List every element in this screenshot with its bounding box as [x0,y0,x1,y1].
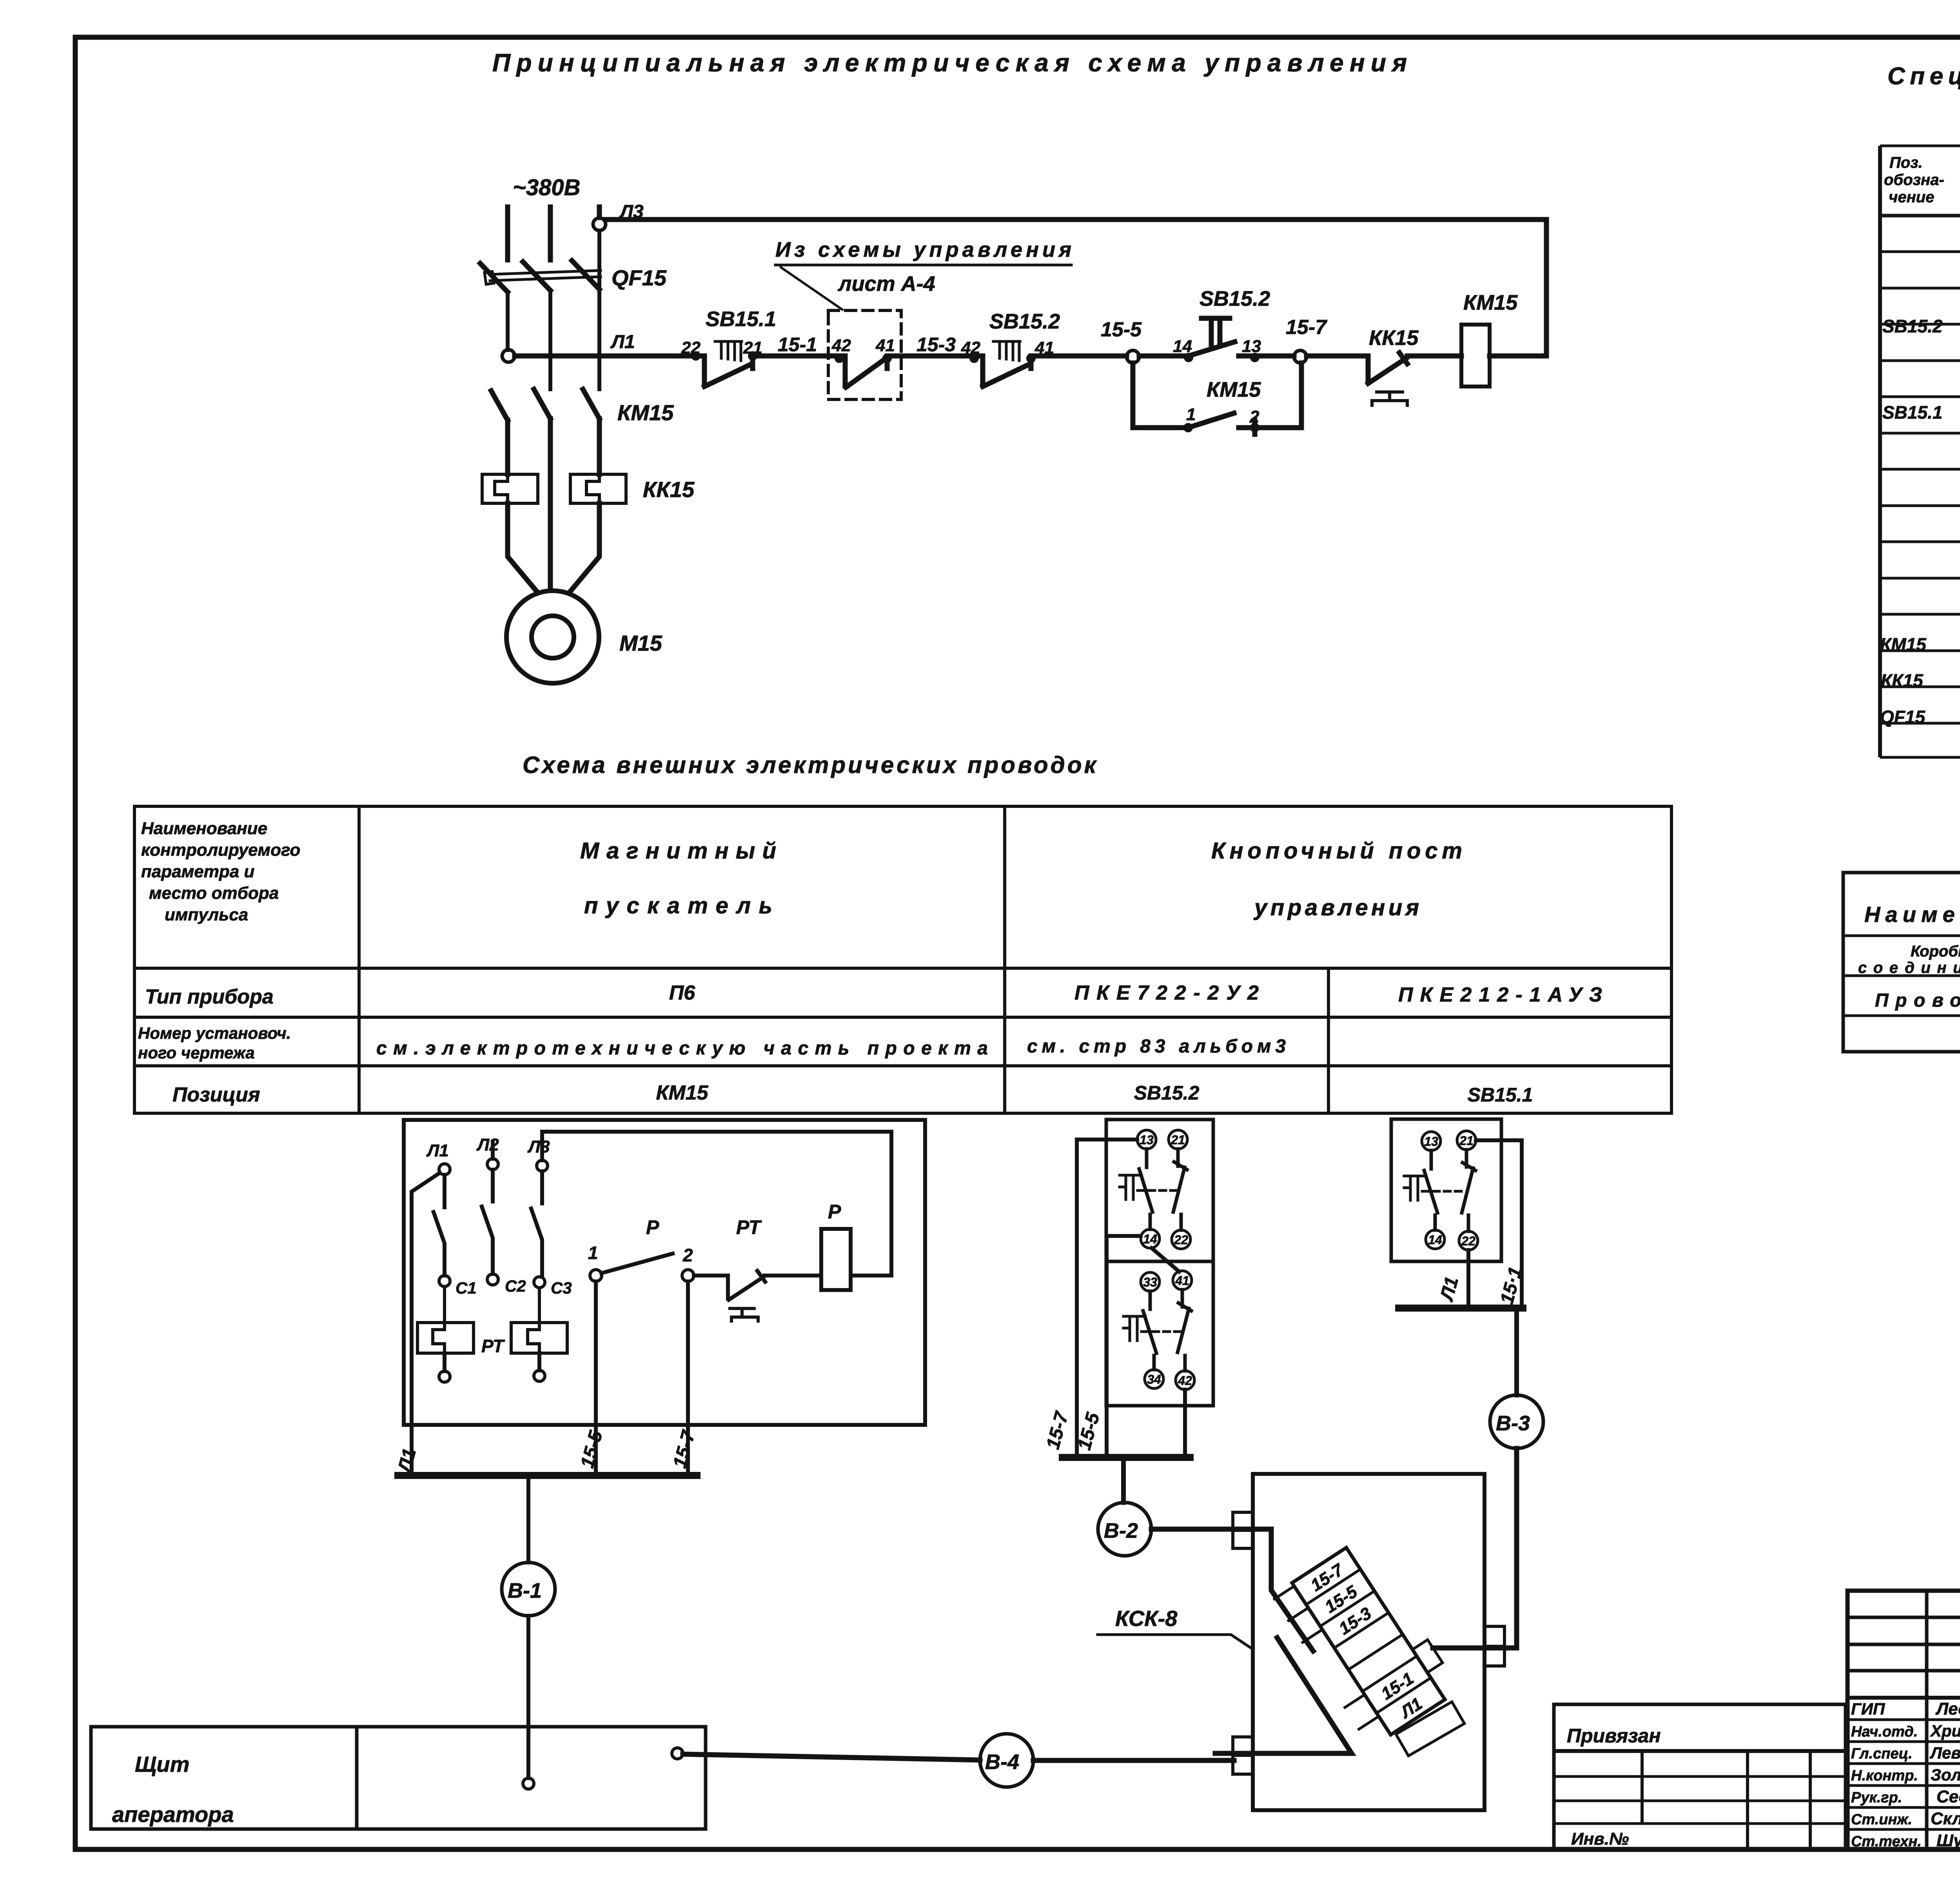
wires 15-5 / 15-7 down to bus [596,1281,688,1475]
svg-text:КМ15: КМ15 [617,400,674,425]
bus under SB15.1 [1399,1305,1523,1312]
svg-text:Щит: Щит [135,1752,189,1776]
svg-text:ПКЕ722-2У2: ПКЕ722-2У2 [1074,982,1259,1004]
svg-text:2: 2 [1249,407,1259,426]
svg-text:42: 42 [831,336,851,355]
wire to node 15-5 [1031,354,1127,359]
svg-text:Ст.техн.: Ст.техн. [1851,1833,1922,1850]
drop to B-1 [526,1479,530,1562]
svg-text:Л2: Л2 [476,1135,499,1154]
node 15-7 [1294,350,1307,363]
wire B-2 into box [1151,1529,1313,1651]
svg-text:Леонов: Леонов [1935,1699,1960,1718]
svg-text:Л1: Л1 [426,1141,449,1160]
svg-text:SB15.1: SB15.1 [706,307,776,331]
svg-text:параметра и: параметра и [141,862,254,881]
main title block [1847,1591,1960,1849]
svg-text:Л3: Л3 [527,1137,550,1156]
svg-text:П6: П6 [669,982,695,1004]
svg-text:Магнитный: Магнитный [580,838,776,864]
svg-text:13: 13 [1424,1134,1438,1149]
power circuit: ~380V supply [480,175,1546,683]
terminals upper block [1137,1130,1191,1249]
svg-text:обозна-: обозна- [1884,171,1944,189]
svg-text:Христофоров: Христофоров [1930,1722,1960,1740]
svg-text:15-5: 15-5 [1101,318,1142,341]
drop to B-3 [1514,1312,1519,1395]
terminal strip (rotated) [1272,1538,1477,1773]
dashed box (contact from sheet A-4) [828,310,901,399]
svg-text:Нач.отд.: Нач.отд. [1851,1724,1918,1740]
svg-text:КМ15: КМ15 [1463,291,1518,314]
svg-text:34: 34 [1147,1372,1161,1386]
terminal L3 [537,1160,548,1171]
svg-text:Ст.инж.: Ст.инж. [1851,1811,1912,1828]
terminals lower block [1141,1271,1194,1390]
svg-text:SB15.1: SB15.1 [1468,1084,1533,1106]
svg-text:1: 1 [588,1243,598,1263]
wire L1 to node 22 [515,354,696,359]
connector right [1484,1626,1504,1666]
privyazan table [1554,1704,1846,1850]
svg-text:ГИП: ГИП [1851,1700,1885,1718]
upper block contacts [1139,1149,1152,1229]
svg-text:РТ: РТ [481,1336,505,1356]
svg-text:место отбора: место отбора [149,884,279,903]
wire to KK15 [1307,354,1368,359]
phase line L1 [505,207,510,260]
svg-text:~380В: ~380В [513,175,581,200]
svg-text:SB15.2: SB15.2 [1200,287,1270,310]
svg-text:С2: С2 [505,1277,526,1295]
wire B-4 from operator panel [683,1734,1234,1787]
svg-text:QF15: QF15 [1880,707,1926,727]
svg-text:41: 41 [1175,1274,1189,1288]
contactor KM15 main contacts [491,389,599,420]
wire 15-1 [753,354,839,359]
specification table 1 [1880,146,1960,757]
svg-text:В-1: В-1 [508,1579,542,1602]
circle B-3 [1490,1395,1543,1448]
svg-text:КМ15: КМ15 [1880,634,1927,655]
svg-text:см.электротехническую часть п: см.электротехническую часть проекта [376,1038,988,1059]
svg-text:21: 21 [1459,1134,1474,1148]
svg-text:SB15.2: SB15.2 [1882,316,1943,336]
svg-text:С1: С1 [456,1279,477,1297]
push-button post SB15.2 (two blocks) [1042,1120,1213,1556]
svg-text:Из схемы управления: Из схемы управления [775,238,1071,261]
contact P nodes 1,2 [590,1270,602,1281]
svg-text:РТ: РТ [736,1216,762,1238]
strip branch stubs [1274,1586,1379,1729]
svg-text:42: 42 [961,338,980,357]
svg-text:15-1: 15-1 [778,334,817,356]
svg-text:Рук.гр.: Рук.гр. [1851,1789,1902,1806]
svg-text:Склярова: Склярова [1931,1809,1960,1828]
svg-text:SB15.1: SB15.1 [1882,402,1942,423]
jumper 14 to 41 [1152,1248,1179,1272]
svg-text:13: 13 [1242,337,1261,356]
svg-text:Наименование: Наименование [141,819,267,838]
wire 15-1 from terminal 21 [1476,1140,1522,1308]
svg-text:Гл.спец.: Гл.спец. [1851,1746,1913,1762]
lower block contacts [1143,1291,1156,1370]
wire 15-7 from terminal 13 [1077,1140,1137,1457]
svg-text:QF15: QF15 [612,265,667,290]
node L3 [593,218,606,230]
svg-text:Наименование: Наименование [1864,902,1960,927]
svg-text:22: 22 [1461,1234,1475,1248]
svg-text:КМ15: КМ15 [656,1082,708,1104]
control circuit line [515,238,1546,434]
wire 15-5 from terminal 14 [1107,1236,1141,1457]
svg-text:Р: Р [828,1201,841,1223]
heater RT 1 [417,1323,474,1353]
svg-text:Седых: Седых [1936,1787,1960,1806]
svg-text:В-4: В-4 [985,1750,1019,1774]
svg-text:ПКЕ212-1АУЗ: ПКЕ212-1АУЗ [1398,984,1602,1006]
bottom terminals [445,1353,539,1371]
svg-text:Коробка: Коробка [1911,943,1960,960]
motor M15 [506,591,599,683]
svg-text:Р: Р [646,1216,659,1238]
svg-text:КК15: КК15 [643,477,695,502]
svg-text:13: 13 [1140,1133,1154,1147]
external wiring table [134,806,1671,1113]
junction box KCK-8 [1098,1474,1504,1810]
remote contact 42-41 [839,356,887,387]
svg-text:1: 1 [1186,405,1196,424]
wire 15-3 [887,354,974,359]
svg-text:42: 42 [1178,1374,1192,1388]
svg-text:Номер установоч.: Номер установоч. [138,1024,291,1042]
svg-text:лист А-4: лист А-4 [837,272,935,296]
specification table 2 [1843,873,1960,1052]
svg-text:КМ15: КМ15 [1207,378,1261,401]
operator panel box [91,1727,706,1829]
drop to B-2 [1121,1461,1126,1502]
svg-text:пускатель: пускатель [584,893,772,918]
contact blades KM [434,1170,542,1277]
wire: rail drop to coil [1544,220,1549,356]
svg-text:Золотарева: Золотарева [1931,1766,1960,1784]
svg-text:14: 14 [1143,1232,1157,1246]
wire from right connector [1433,1646,1494,1651]
svg-text:22: 22 [1174,1233,1188,1247]
svg-text:КСК-8: КСК-8 [1115,1606,1178,1631]
svg-text:Тип прибора: Тип прибора [145,985,274,1008]
node L1 [502,350,515,362]
svg-text:41: 41 [875,336,895,355]
svg-text:Спецификация принципиальной: Спецификация принципиальной электрическо… [1887,63,1960,90]
svg-text:соединительная: соединительная [1858,959,1960,976]
svg-text:Л1: Л1 [610,332,635,352]
svg-text:В-2: В-2 [1104,1519,1138,1542]
leads to motor [508,503,599,593]
svg-text:15-3: 15-3 [916,334,956,356]
thermal relay KK15 heaters [482,474,538,503]
terminals C1 C2 C3 [439,1276,450,1287]
phase line L2 [548,207,553,260]
connector left top [1233,1512,1253,1548]
wire: top rail L3 [606,217,1546,222]
wire L1 down-left and out of box [412,1173,440,1475]
svg-text:33: 33 [1143,1275,1157,1289]
terminal L1 [439,1164,450,1175]
svg-text:КК15: КК15 [1369,326,1419,350]
node 15-5 [1127,350,1139,363]
bus under SB15.2 [1062,1454,1190,1461]
svg-text:контролируемого: контролируемого [141,840,300,860]
svg-text:М15: М15 [619,631,662,655]
internal rail from L3 to relay coil [543,1132,891,1276]
wire B-4 into box [1215,1638,1352,1753]
svg-text:ного чертежа: ного чертежа [138,1043,255,1062]
svg-text:Шуст: Шуст [1936,1831,1960,1850]
circle B-2 [1098,1502,1151,1556]
circle B-1 [502,1562,555,1616]
svg-text:Схема внешних электрических: Схема внешних электрических проводок [523,752,1097,778]
magnetic starter enclosure [91,1120,925,1829]
wire from terminal 42 [1183,1390,1187,1457]
svg-text:Н.контр.: Н.контр. [1851,1767,1918,1784]
svg-text:аператора: аператора [112,1802,234,1827]
wire to node 15-7 [1255,354,1294,359]
svg-text:Поз.: Поз. [1889,154,1923,171]
B-3 wire down to junction box [1494,1448,1517,1648]
contacts [1424,1150,1437,1230]
panel bus [398,1472,697,1479]
push-button post SB15.1 (one block) [1391,1119,1543,1648]
svg-text:чение: чение [1889,189,1934,206]
KM15 holding contact branch [1133,363,1301,428]
svg-text:импульса: импульса [165,905,248,924]
svg-text:С3: С3 [551,1279,572,1297]
svg-text:15-7: 15-7 [1286,316,1327,339]
terminal L2 [487,1159,498,1170]
phase line L3 [597,207,602,218]
wire L1 from terminal 22 [1466,1250,1470,1308]
svg-text:Левинский: Левинский [1929,1744,1960,1762]
svg-text:21: 21 [1171,1133,1185,1147]
svg-text:КК15: КК15 [1881,670,1924,691]
wire to 14 [1139,354,1189,359]
svg-text:Привязан: Привязан [1567,1725,1661,1747]
node 42 [835,354,844,363]
svg-text:Инв.№: Инв.№ [1571,1829,1629,1849]
breaker QF15 [480,261,599,292]
heater RT 2 [511,1323,567,1353]
svg-text:В-3: В-3 [1496,1412,1530,1435]
svg-text:14: 14 [1428,1233,1442,1247]
svg-text:SB15.2: SB15.2 [989,310,1060,333]
connector left bottom [1233,1737,1253,1774]
svg-text:SB15.2: SB15.2 [1134,1082,1200,1104]
node 22 [691,351,701,361]
svg-text:2: 2 [682,1245,693,1265]
svg-text:14: 14 [1173,337,1192,356]
svg-text:Позиция: Позиция [172,1083,260,1106]
